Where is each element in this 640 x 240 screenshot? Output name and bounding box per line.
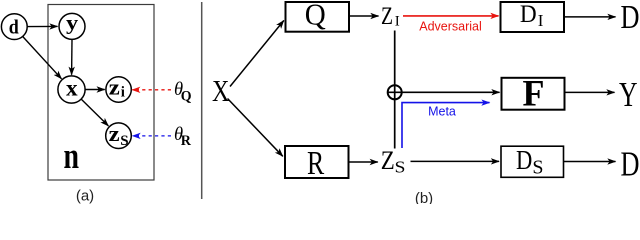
svg-text:x: x — [66, 76, 78, 101]
svg-text:D: D — [621, 144, 640, 183]
node x — [58, 76, 85, 104]
box R — [285, 145, 349, 182]
wire X to R — [228, 99, 283, 157]
svg-text:I: I — [538, 11, 544, 30]
label ZS — [381, 146, 406, 176]
wire X to Q — [230, 21, 284, 87]
svg-text:R: R — [181, 133, 191, 149]
box DS — [501, 145, 564, 178]
wire DS to D — [564, 161, 616, 163]
svg-text:Z: Z — [381, 3, 393, 30]
node zS — [106, 121, 132, 149]
svg-text:z: z — [109, 121, 120, 146]
wire DI to D — [564, 16, 616, 18]
plus node circle — [388, 85, 402, 99]
svg-text:(a): (a) — [76, 188, 94, 205]
wire x to zi — [85, 89, 104, 91]
wire d to y — [28, 25, 58, 27]
svg-text:z: z — [109, 75, 120, 100]
svg-text:S: S — [532, 156, 543, 178]
svg-text:d: d — [9, 16, 19, 38]
blue meta elbow arrow to F — [402, 103, 490, 148]
box DI — [501, 0, 565, 32]
svg-text:(b): (b) — [415, 190, 433, 204]
svg-text:R: R — [307, 145, 324, 182]
svg-text:F: F — [523, 74, 545, 115]
box F — [502, 74, 565, 115]
svg-text:Q: Q — [305, 0, 326, 32]
svg-text:Q: Q — [181, 89, 192, 105]
svg-text:Z: Z — [381, 146, 395, 175]
svg-text:D: D — [520, 0, 537, 28]
label ZI — [381, 3, 400, 30]
label thetaR — [174, 125, 191, 149]
wire d to x — [23, 37, 62, 79]
wire y to x — [71, 40, 73, 75]
wire F to Y — [565, 91, 615, 93]
svg-text:S: S — [395, 157, 406, 176]
svg-text:D: D — [516, 145, 532, 175]
svg-text:S: S — [120, 133, 128, 149]
wire plus node to F — [388, 91, 500, 93]
plate rectangle (a) — [48, 5, 154, 181]
svg-text:Adversarial: Adversarial — [419, 20, 482, 34]
svg-text:y: y — [66, 11, 79, 35]
separator line — [201, 2, 203, 199]
svg-text:Y: Y — [619, 75, 638, 114]
wire R to ZS — [349, 161, 378, 163]
node y — [59, 11, 85, 40]
box Q — [286, 0, 350, 32]
node zi — [106, 75, 131, 103]
wire x to zS — [81, 99, 108, 126]
red arrow ZI to DI — [403, 15, 499, 17]
wire Q to ZI — [349, 15, 379, 17]
svg-text:I: I — [395, 13, 400, 29]
svg-text:X: X — [212, 73, 229, 108]
svg-text:Meta: Meta — [428, 105, 456, 119]
wire ZI down to plus node — [394, 31, 396, 149]
svg-text:D: D — [621, 0, 640, 36]
label thetaQ — [174, 80, 192, 105]
svg-text:i: i — [121, 85, 125, 101]
red dashed arrow thetaQ to zi — [132, 89, 171, 91]
blue dashed arrow thetaR to zS — [133, 135, 172, 137]
wire ZS to DS — [411, 160, 500, 162]
svg-text:n: n — [64, 136, 80, 177]
node d — [1, 14, 27, 40]
